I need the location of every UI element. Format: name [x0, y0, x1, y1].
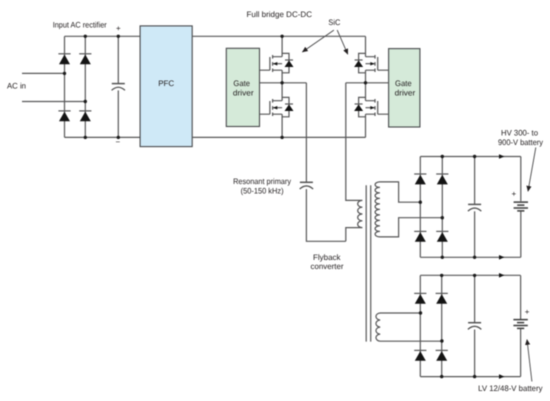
transformer T1 core	[366, 185, 371, 341]
wire: Q2 drain from midpoint	[281, 83, 283, 101]
node: AC bottom lead junction	[84, 100, 87, 103]
svg-text:+: +	[525, 308, 530, 317]
diode D1 (bridge upper-left)	[58, 54, 70, 64]
node: AC top lead junction	[63, 72, 66, 75]
wire: HV rectifier bottom rail	[420, 256, 521, 258]
capacitor C4 (LV filter)	[468, 323, 481, 330]
wire: Q1 source to midpoint	[281, 70, 283, 83]
wire: resonant capacitor bottom lead to primary return	[306, 189, 345, 241]
diode D10 (LV upper-right)	[436, 293, 448, 303]
wire: bridge right leg	[84, 36, 86, 137]
wire: resonant capacitor top lead	[305, 83, 307, 182]
node: bottom rail / Q2 source junction	[280, 136, 283, 139]
wire: LV battery bottom lead	[520, 329, 522, 377]
wire: LV rectifier left leg	[419, 275, 421, 376]
svg-text:+: +	[116, 24, 121, 33]
node: LV right leg bottom	[440, 375, 443, 378]
node: LV right leg input	[440, 339, 443, 342]
flow arrow: HV negative output	[499, 255, 505, 260]
node: right phase midpoint	[364, 81, 367, 84]
wire: DC bus bottom rail (PFC to full bridge)	[192, 136, 365, 138]
block: right Gate driver	[389, 49, 420, 127]
svg-text:driver: driver	[395, 89, 416, 98]
arrow: HV battery callout	[528, 148, 536, 192]
block: PFC converter	[140, 26, 192, 147]
node: LV cap bottom junction	[473, 375, 476, 378]
wire: HV filter capacitor bottom lead	[474, 211, 476, 257]
wire: LV rectifier bottom rail	[420, 376, 520, 378]
wire: HV battery top lead	[520, 157, 522, 202]
wire: input bridge top rail to PFC	[65, 35, 141, 37]
svg-text:converter: converter	[311, 262, 344, 271]
diode D11 (LV lower-left)	[414, 350, 426, 360]
wire: right phase midpoint to transformer primary	[346, 82, 389, 84]
arrow: SiC callout to right high-side MOSFET	[337, 30, 348, 54]
wire: DC-link capacitor bottom lead	[117, 90, 119, 137]
wire: LV rectifier top rail	[420, 274, 520, 276]
transformer T1 LV secondary winding with leads	[376, 313, 442, 341]
wire: LV filter capacitor top lead	[474, 275, 476, 322]
wire: AC input bottom lead	[22, 101, 85, 103]
svg-text:Resonant primary: Resonant primary	[233, 177, 291, 186]
wire: LV battery top lead	[520, 275, 522, 319]
transistor Q4 (SiC MOSFET, right low side)	[354, 97, 388, 116]
node: LV left leg input	[419, 311, 422, 314]
svg-text:+: +	[511, 190, 516, 199]
svg-text:Flyback: Flyback	[313, 253, 341, 262]
wire: HV rectifier top rail	[420, 156, 521, 158]
wire: AC input top lead	[22, 72, 65, 74]
svg-text:LV 12/48-V battery: LV 12/48-V battery	[478, 384, 542, 393]
capacitor C3 (HV filter)	[468, 204, 481, 211]
node: HV cap top junction	[473, 155, 476, 158]
wire: bridge left leg	[64, 36, 66, 137]
node: C1 top junction	[117, 35, 120, 38]
node: HV right leg input	[441, 216, 444, 219]
svg-text:Full bridge DC-DC: Full bridge DC-DC	[247, 10, 313, 19]
diode D7 (HV lower-left)	[414, 231, 426, 241]
svg-text:Input AC rectifier: Input AC rectifier	[53, 20, 107, 29]
wire + inductor: transformer primary winding loop	[346, 83, 363, 242]
node: C1 bottom junction	[117, 136, 120, 139]
transistor Q1 (SiC MOSFET, left high side)	[260, 53, 294, 72]
diode D9 (LV upper-left)	[414, 293, 426, 303]
wire: Q3 source to midpoint	[365, 70, 367, 83]
node: HV left leg input	[419, 201, 422, 204]
block: left Gate driver	[226, 48, 259, 126]
node: LV cap top junction	[473, 274, 476, 277]
arrow: SiC callout to left high-side MOSFET	[302, 30, 334, 52]
wire: Q1 drain from top rail	[281, 36, 283, 56]
flow arrow: HV positive output	[499, 154, 505, 159]
wire: Q4 drain from midpoint	[365, 83, 367, 101]
battery B2 (LV battery)	[513, 320, 527, 329]
svg-text:(50-150 kHz): (50-150 kHz)	[241, 186, 284, 195]
wire: DC-link capacitor top lead	[117, 36, 119, 83]
svg-text:Gate: Gate	[395, 79, 412, 88]
diode D12 (LV lower-right)	[436, 350, 448, 360]
wire: left phase midpoint to resonant capacitor	[260, 82, 307, 84]
svg-text:AC in: AC in	[7, 81, 26, 90]
node: HV right leg bottom	[441, 256, 444, 259]
wire: Q2 source to bottom rail	[281, 114, 283, 137]
node: top rail / Q1 drain junction	[280, 35, 283, 38]
node: HV right leg top	[441, 155, 444, 158]
diode D6 (HV upper-right)	[436, 174, 448, 184]
diode D4 (bridge lower-right)	[79, 111, 91, 121]
wire: Q3 drain from top rail	[365, 36, 367, 56]
node: HV cap bottom junction	[473, 256, 476, 259]
battery B1 (HV battery)	[514, 202, 528, 211]
node: bridge right leg top junction	[84, 35, 87, 38]
transistor Q3 (SiC MOSFET, right high side)	[354, 53, 388, 72]
wire: HV rectifier left leg	[419, 157, 421, 258]
diode D8 (HV lower-right)	[436, 231, 448, 241]
diode D3 (bridge lower-left)	[58, 111, 70, 121]
capacitor C1 (DC link)	[112, 84, 125, 91]
wire: LV filter capacitor bottom lead	[474, 330, 476, 377]
wire: input bridge bottom rail to PFC	[65, 136, 141, 138]
node: LV right leg top	[440, 274, 443, 277]
node: bridge right leg bottom junction	[84, 136, 87, 139]
svg-text:PFC: PFC	[158, 79, 174, 88]
svg-text:SiC: SiC	[328, 18, 340, 27]
diode D2 (bridge upper-right)	[79, 54, 91, 64]
capacitor C2 (resonant)	[300, 182, 313, 189]
node: left phase midpoint	[280, 81, 283, 84]
svg-text:Gate: Gate	[233, 79, 250, 88]
diode D5 (HV upper-left)	[414, 174, 426, 184]
transistor Q2 (SiC MOSFET, left low side)	[260, 97, 294, 116]
svg-text:driver: driver	[233, 89, 254, 98]
svg-text:HV 300- to: HV 300- to	[501, 129, 539, 138]
arrow: LV battery callout	[527, 340, 532, 382]
wire: Q4 source to bottom rail	[365, 114, 367, 137]
wire: HV filter capacitor top lead	[474, 157, 476, 205]
flow arrow: LV negative output	[499, 374, 505, 379]
wire: DC bus top rail (PFC to full bridge)	[192, 35, 365, 37]
flow arrow: LV positive output	[499, 273, 505, 278]
svg-text:900-V battery: 900-V battery	[498, 138, 543, 147]
wire: HV battery bottom lead	[520, 211, 522, 257]
wire: HV rectifier right leg	[441, 157, 443, 258]
wire: LV rectifier right leg	[441, 275, 443, 376]
transformer T1 HV secondary winding with leads	[375, 182, 442, 237]
